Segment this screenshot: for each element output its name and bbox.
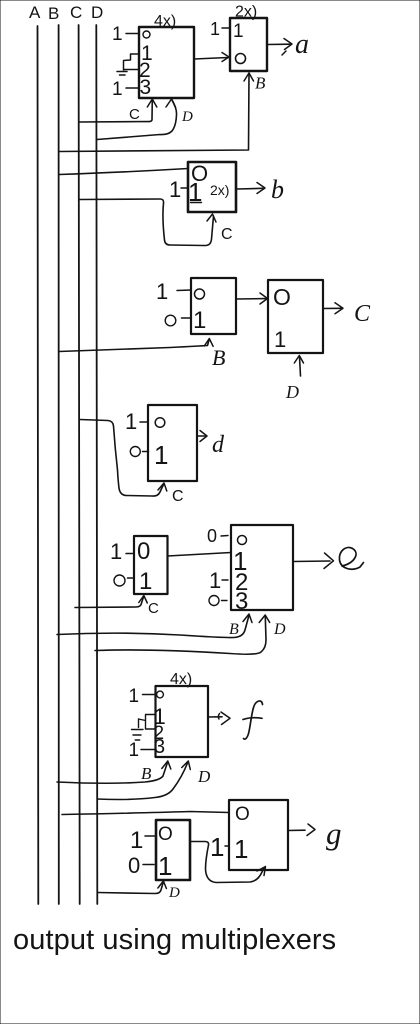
svg-text:C: C <box>129 106 140 123</box>
svg-text:B: B <box>141 764 152 783</box>
svg-text:1: 1 <box>156 279 168 304</box>
svg-text:1: 1 <box>209 568 221 593</box>
svg-text:A: A <box>29 3 41 22</box>
svg-text:1: 1 <box>154 440 168 470</box>
svg-text:B: B <box>255 74 266 93</box>
svg-text:1: 1 <box>234 834 248 864</box>
svg-text:0: 0 <box>137 538 150 565</box>
svg-text:O: O <box>158 824 173 845</box>
svg-text:1: 1 <box>158 851 172 881</box>
svg-text:C: C <box>221 226 233 243</box>
svg-text:4x): 4x) <box>154 13 176 30</box>
svg-text:1: 1 <box>169 177 181 202</box>
svg-text:D: D <box>273 621 286 638</box>
svg-text:0: 0 <box>128 853 140 878</box>
svg-text:1: 1 <box>210 832 224 862</box>
svg-text:D: D <box>285 382 299 402</box>
svg-text:g: g <box>326 816 342 851</box>
svg-text:D: D <box>181 109 193 125</box>
svg-text:1: 1 <box>274 327 286 352</box>
svg-text:D: D <box>168 885 180 901</box>
svg-text:3: 3 <box>154 736 165 758</box>
svg-text:1: 1 <box>129 686 140 707</box>
svg-text:2x): 2x) <box>235 4 257 21</box>
svg-text:C: C <box>172 488 184 505</box>
svg-text:1: 1 <box>193 307 206 334</box>
svg-text:3: 3 <box>235 588 248 615</box>
svg-text:B: B <box>212 345 225 370</box>
svg-text:1: 1 <box>139 568 152 595</box>
svg-text:0: 0 <box>207 526 217 546</box>
svg-text:D: D <box>197 767 211 786</box>
svg-text:1: 1 <box>110 539 122 564</box>
svg-text:4x): 4x) <box>170 671 192 688</box>
svg-text:1: 1 <box>233 21 244 42</box>
svg-text:C: C <box>148 600 159 617</box>
svg-text:O: O <box>235 804 250 825</box>
svg-text:3: 3 <box>140 76 152 99</box>
svg-text:O: O <box>273 284 291 310</box>
svg-text:C: C <box>70 3 82 22</box>
svg-text:1: 1 <box>210 19 220 39</box>
svg-text:1: 1 <box>125 409 137 434</box>
svg-text:B: B <box>229 621 239 638</box>
svg-text:1: 1 <box>130 827 143 854</box>
svg-text:1: 1 <box>129 740 140 761</box>
svg-text:D: D <box>91 3 103 22</box>
svg-text:d: d <box>212 432 225 458</box>
svg-text:B: B <box>48 4 59 23</box>
svg-text:C: C <box>354 301 371 327</box>
svg-text:output using multiplexers: output using multiplexers <box>13 924 336 956</box>
svg-text:2x): 2x) <box>210 182 229 198</box>
svg-text:1: 1 <box>112 79 123 100</box>
svg-text:1: 1 <box>112 24 123 45</box>
svg-text:a: a <box>295 29 309 60</box>
svg-text:b: b <box>271 175 284 204</box>
